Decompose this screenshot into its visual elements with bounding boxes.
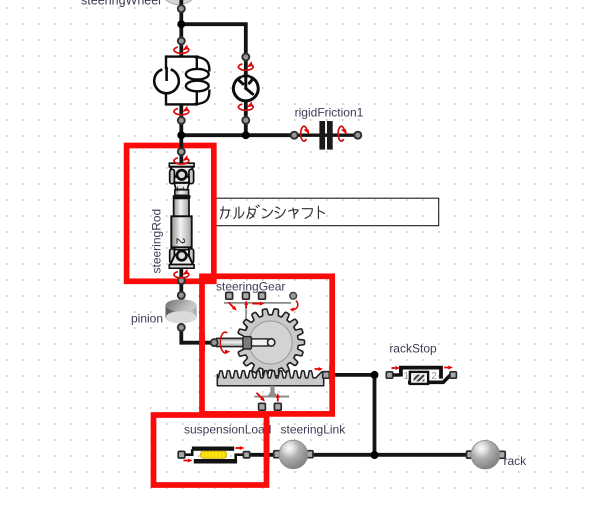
- flange steeringRod top: [178, 148, 185, 155]
- wire steeringRod to pinion: [179, 268, 183, 300]
- rotation arrow rigidFriction1 left: [301, 126, 310, 141]
- flange pinion top: [178, 292, 185, 299]
- flange steeringWheel: [178, 5, 185, 12]
- red highlight rectangle around suspensionLoad: [154, 415, 267, 485]
- wire trunk to steeringRod: [179, 135, 183, 163]
- steeringGear control squares: [226, 292, 233, 299]
- wire rack to rackStop junction: [329, 373, 375, 377]
- bottom bus wire: [250, 453, 467, 457]
- svg-text:steeringWheel: steeringWheel: [81, 0, 161, 8]
- svg-text:rigidFriction1: rigidFriction1: [295, 106, 364, 120]
- rigidFriction1 component (two bars): [294, 133, 358, 136]
- flange pinion bottom: [178, 324, 185, 331]
- wire branch right to damper: [181, 24, 246, 84]
- wire damper bottom to bus: [244, 100, 248, 137]
- rack right connector square: [323, 372, 330, 379]
- svg-text:steeringRod: steeringRod: [150, 209, 164, 274]
- steeringLink ball joint: [274, 451, 281, 458]
- springDamper (box with damper circle and spring coils): [154, 57, 209, 105]
- damper (circle with wedge and pointer): [233, 76, 258, 101]
- rotation arrow rigidFriction1 right: [338, 126, 347, 141]
- junction bottom bus: [371, 451, 379, 459]
- flange steeringRod bottom: [178, 277, 185, 284]
- rotation arrow springDamper top: [174, 44, 189, 53]
- svg-text:2: 2: [173, 238, 185, 244]
- svg-text:pinion: pinion: [131, 312, 163, 326]
- flange rigidFriction1 left: [291, 132, 298, 139]
- wire pinion to steeringGear shaft: [181, 322, 214, 343]
- rotation arrow damper bottom: [238, 101, 253, 110]
- red highlight rectangle around steeringGear: [202, 276, 332, 414]
- red patch: suspensionLoad rect right edge over wire and label: [264, 420, 270, 465]
- flange steeringGear shaft: [211, 339, 218, 346]
- red patch: steeringGear rect left edge over pinion wire: [199, 333, 205, 352]
- flange rigidFriction1 right: [354, 132, 361, 139]
- red arrows steeringGear top: [229, 303, 234, 308]
- rotation arrow steeringRod top: [174, 155, 189, 164]
- yellow mass: [201, 451, 227, 458]
- junction below steeringWheel: [177, 20, 185, 28]
- rotation arrow damper top: [238, 61, 253, 70]
- red curved arrow near control circle: [292, 301, 298, 310]
- suspensionLoad friction component: [185, 449, 192, 455]
- wire junction down to bottom bus: [373, 375, 377, 455]
- red patch: steeringGear rect right edge over rack wire: [329, 365, 335, 384]
- flange damper top: [242, 54, 249, 61]
- svg-text:steeringLink: steeringLink: [281, 422, 347, 436]
- junction bus right: [242, 131, 250, 139]
- red highlight rectangle around steeringRod: [127, 146, 214, 282]
- svg-text:suspensionLoad: suspensionLoad: [184, 422, 271, 436]
- text カルダンシャフト: [220, 205, 324, 218]
- rotation arrow springDamper bottom: [174, 106, 189, 115]
- svg-text:steeringGear: steeringGear: [216, 280, 285, 294]
- steeringGear control lines (gray): [224, 303, 291, 337]
- junction bus left: [177, 131, 185, 139]
- flange springDamper top: [178, 38, 185, 45]
- svg-text:2: 2: [431, 371, 437, 382]
- rack ball joint: [467, 451, 474, 458]
- gear wheel: [237, 309, 305, 376]
- inertia steeringWheel (clipped at top): [163, 0, 195, 5]
- wire trunk from steeringWheel down to springDamper: [179, 0, 183, 56]
- svg-text:1: 1: [174, 186, 186, 192]
- red arrows rack bottom: [257, 393, 262, 398]
- pinion bevel cylinder: [166, 299, 197, 323]
- wire bus to rigidFriction1: [181, 133, 294, 137]
- rack bar with teeth: [217, 371, 323, 386]
- steeringRod cardan shaft component: [169, 163, 194, 268]
- junction rackStop: [371, 371, 379, 379]
- rotation arrow steeringRod bottom: [174, 269, 189, 278]
- svg-text:1: 1: [404, 371, 410, 382]
- steeringGear control circle: [290, 292, 297, 299]
- steeringGear bottom squares: [259, 403, 266, 410]
- rack stem and base line: [267, 386, 277, 397]
- annotation text box "カルダンシャフト": [215, 198, 439, 226]
- flange damper bottom: [242, 117, 249, 124]
- flange springDamper bottom: [178, 117, 185, 124]
- red curved arrow around shaft: [220, 332, 227, 353]
- rackStop component: [393, 368, 452, 383]
- wire springDamper bottom to bus: [179, 104, 183, 137]
- svg-text:rackStop: rackStop: [389, 341, 437, 355]
- shaft into gear: [217, 338, 244, 346]
- svg-text:rack: rack: [504, 454, 528, 468]
